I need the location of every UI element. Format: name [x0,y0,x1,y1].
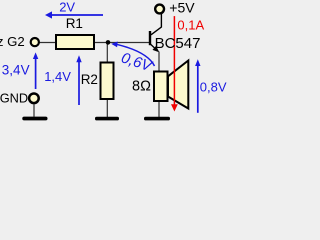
voltage arrow 0,6V (blue, curved) [111,42,154,67]
wire: input terminal to R1 [39,42,56,44]
svg-text:3,4V: 3,4V [2,63,30,78]
svg-text:0,6V: 0,6V [119,49,155,75]
wire: node to R2 top [106,43,108,64]
terminal: input z G2 [31,38,39,46]
voltage arrow 2V (blue, left) [45,11,103,18]
wire: GND terminal to ground bar [33,104,35,117]
svg-text:R2: R2 [81,72,98,87]
wire: speaker to ground [158,101,160,117]
node: base junction dot [106,40,111,45]
voltage arrow 0,8V (blue, up) [195,59,200,113]
terminal GND [29,94,39,104]
transistor Q1 emitter with arrow [150,44,160,53]
resistor R2 [101,63,114,100]
svg-text:z G2: z G2 [0,34,25,49]
wire: emitter to speaker [158,52,160,72]
svg-text:2V: 2V [59,0,75,14]
svg-text:BC547: BC547 [155,35,201,52]
speaker LS1 horn [168,61,188,109]
svg-text:8Ω: 8Ω [132,79,151,95]
resistor R1 [56,35,94,49]
svg-text:GND: GND [0,91,28,106]
ground below R2 [95,117,119,121]
svg-text:R1: R1 [66,16,83,31]
voltage arrow 1,4V (blue, up) [76,55,81,105]
current arrow 0,1A (red) [171,16,178,111]
ground below speaker [144,117,170,121]
speaker LS1 body [154,72,168,102]
svg-text:0,1A: 0,1A [177,17,204,32]
terminal +5V [155,5,164,14]
svg-text:+5V: +5V [169,0,195,15]
wire: R2 bottom to ground [106,99,108,117]
ground at GND terminal [22,117,47,121]
svg-text:1,4V: 1,4V [44,69,71,84]
transistor Q1 base bar [149,31,151,45]
voltage arrow 3,4V (blue, up) [33,52,38,89]
wire: R1 to transistor base [94,42,149,44]
wire: +5V to collector [151,14,161,35]
svg-text:0,8V: 0,8V [200,80,227,95]
